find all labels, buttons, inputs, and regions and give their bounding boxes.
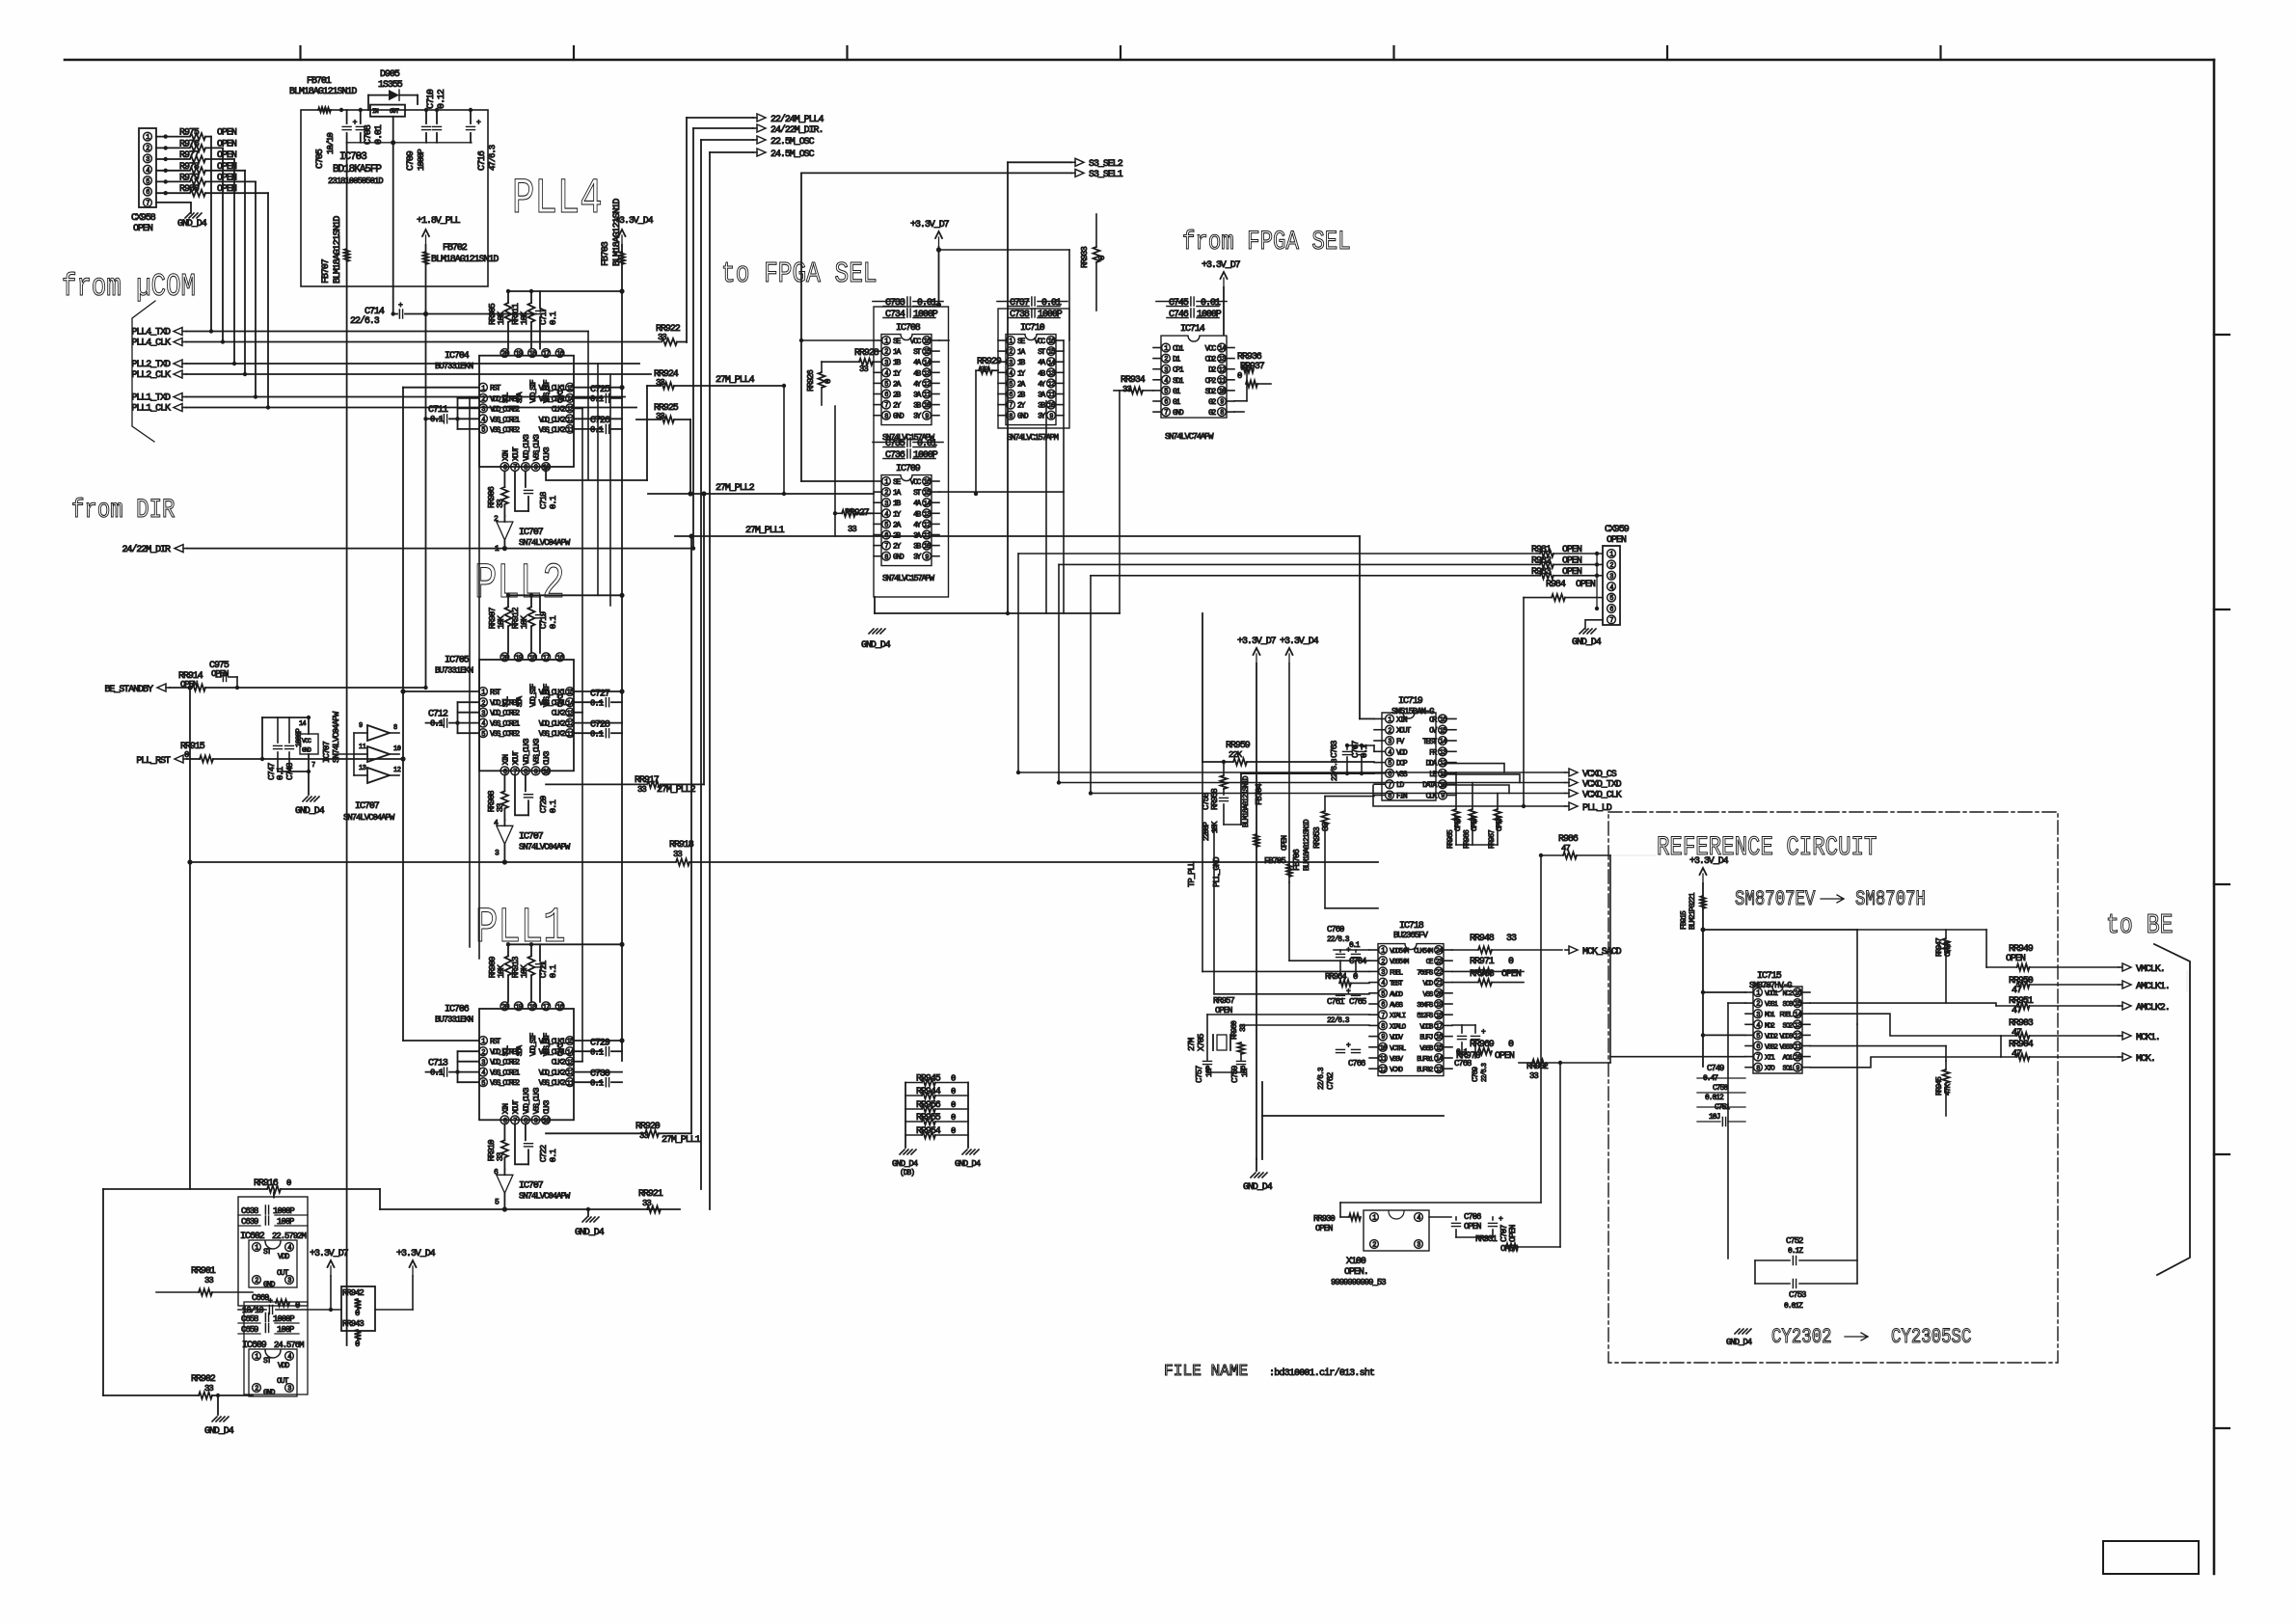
svg-text:4: 4	[1388, 749, 1391, 757]
wire	[1377, 862, 1379, 908]
svg-text:XOUT: XOUT	[512, 447, 521, 461]
wire	[1703, 929, 1857, 931]
svg-text:13: 13	[924, 370, 931, 378]
inverter IC707	[503, 820, 505, 826]
svg-text:13: 13	[1440, 749, 1446, 757]
svg-text:RR928: RR928	[854, 348, 879, 359]
svg-text:33: 33	[637, 785, 646, 795]
svg-text:2: 2	[884, 490, 888, 498]
svg-text:OPEN.: OPEN.	[1344, 1267, 1368, 1278]
wire	[1339, 1203, 1341, 1217]
svg-text:FB707: FB707	[321, 258, 332, 284]
svg-text:+1.8V_PLL: +1.8V_PLL	[417, 216, 461, 227]
svg-text:VSS_CLK1: VSS_CLK1	[539, 395, 566, 404]
svg-text:AMCLK1.: AMCLK1.	[2136, 982, 2170, 992]
svg-text:4: 4	[287, 1245, 291, 1253]
chip IC707 power pins	[300, 734, 318, 754]
wire	[132, 301, 155, 442]
wire	[1360, 717, 1374, 719]
svg-text:2: 2	[481, 700, 485, 708]
wire	[65, 59, 2214, 62]
svg-text:2: 2	[1756, 1001, 1760, 1009]
wire	[2186, 971, 2188, 993]
svg-text:to FPGA SEL: to FPGA SEL	[721, 258, 878, 291]
svg-text:VSS_CORE2: VSS_CORE2	[490, 426, 520, 435]
svg-text:10/10: 10/10	[326, 133, 336, 154]
svg-text:0: 0	[286, 1178, 291, 1188]
resistor R980	[156, 192, 189, 194]
svg-text:from µCOM: from µCOM	[62, 268, 196, 305]
svg-text:5: 5	[884, 381, 888, 389]
svg-text:C768: C768	[1454, 1059, 1472, 1069]
svg-text:13: 13	[359, 765, 366, 772]
wire	[503, 1194, 505, 1209]
svg-text:VSS3: VSS3	[1779, 1044, 1793, 1052]
svg-text:9: 9	[534, 465, 538, 473]
power block outline	[301, 110, 488, 286]
power +3.3V_D4	[1702, 874, 1704, 883]
wire	[2000, 1036, 2002, 1057]
svg-text:10: 10	[543, 1118, 550, 1125]
wire	[457, 398, 459, 429]
svg-text:1000P: 1000P	[913, 310, 938, 320]
wire	[347, 142, 472, 144]
svg-text:3: 3	[884, 360, 888, 367]
svg-text:SN74LVC04APW: SN74LVC04APW	[343, 813, 395, 823]
svg-text:7: 7	[1609, 617, 1613, 625]
svg-text:4: 4	[481, 720, 485, 728]
ground	[869, 629, 874, 634]
svg-text:BLM18AG121SN1D: BLM18AG121SN1D	[1303, 819, 1311, 871]
wire	[874, 307, 949, 597]
svg-text:8: 8	[1381, 1023, 1385, 1031]
svg-text:14: 14	[1440, 739, 1446, 746]
svg-text:2: 2	[1009, 349, 1013, 357]
svg-text:3: 3	[884, 501, 888, 508]
node S3_SEL1	[1075, 169, 1084, 176]
svg-text:10K: 10K	[1211, 821, 1220, 833]
power +3.3V_D7	[1223, 278, 1225, 287]
svg-text:+3.3V_D7: +3.3V_D7	[310, 1249, 349, 1259]
svg-text:8: 8	[393, 724, 397, 732]
svg-text:0.1Z: 0.1Z	[1788, 1247, 1803, 1256]
svg-text:XTALI: XTALI	[1390, 1013, 1406, 1020]
wire	[1497, 844, 1499, 846]
wire	[392, 117, 394, 143]
power +3.3V_D4	[1288, 654, 1290, 663]
svg-text:11: 11	[1795, 1043, 1801, 1051]
svg-text:RST: RST	[490, 1038, 501, 1046]
svg-text:PLL1: PLL1	[475, 900, 566, 957]
svg-text:+3.3V_D7: +3.3V_D7	[1237, 636, 1277, 647]
svg-text:1: 1	[1388, 717, 1391, 724]
svg-text:0.1: 0.1	[1349, 941, 1361, 950]
svg-text:8: 8	[884, 554, 888, 561]
svg-text:BU7331EKN: BU7331EKN	[435, 1015, 473, 1024]
svg-text:11: 11	[567, 731, 574, 739]
svg-text:CLK54M: CLK54M	[1414, 948, 1434, 956]
wire	[1610, 1056, 1745, 1058]
svg-text:BD18KA5FP: BD18KA5FP	[333, 164, 382, 176]
svg-text:512FS: 512FS	[1417, 1013, 1434, 1020]
svg-text:GND_D4: GND_D4	[1726, 1338, 1752, 1347]
chip IC708 SN74LVC157APW	[881, 335, 932, 425]
svg-text:BUF01: BUF01	[1417, 1056, 1434, 1064]
svg-text:0.1: 0.1	[590, 425, 604, 435]
svg-text:1: 1	[255, 1245, 258, 1253]
svg-text:3: 3	[1381, 969, 1385, 977]
svg-text:23: 23	[1436, 959, 1443, 966]
svg-text:RR926: RR926	[806, 370, 816, 392]
chip IC704 BU7331EKN	[479, 356, 574, 467]
wire	[2214, 1427, 2229, 1429]
svg-text:+3.3V_D7: +3.3V_D7	[910, 220, 950, 230]
power +3.3V_D4	[412, 1266, 414, 1276]
svg-text:9: 9	[1796, 1065, 1799, 1072]
svg-text:VDD2: VDD2	[1765, 1033, 1777, 1041]
wire	[1206, 1015, 1208, 1060]
svg-text:0.012: 0.012	[1705, 1094, 1724, 1102]
svg-text:GND: GND	[263, 1281, 276, 1289]
svg-text:OUT: OUT	[277, 1377, 289, 1386]
svg-text:RR933: RR933	[1080, 247, 1090, 268]
svg-text:4: 4	[481, 417, 485, 424]
svg-text:3: 3	[287, 1278, 291, 1286]
svg-text:3: 3	[287, 1386, 291, 1394]
node 22.5M_OSC	[757, 136, 766, 144]
svg-text:VDD_CORE1: VDD_CORE1	[490, 1048, 520, 1057]
svg-text:13: 13	[567, 710, 574, 717]
svg-text:CLK2: CLK2	[552, 1059, 566, 1068]
svg-text:1000P: 1000P	[1197, 310, 1222, 320]
svg-text:7: 7	[311, 762, 315, 770]
wire	[508, 943, 622, 945]
wire	[217, 1395, 219, 1416]
svg-text:16: 16	[556, 1004, 563, 1012]
node VCXO_CLK	[1569, 790, 1578, 798]
svg-text:VCTRL: VCTRL	[1390, 1045, 1407, 1053]
svg-text:MCK.: MCK.	[2136, 1054, 2155, 1065]
connector CX958	[139, 128, 156, 207]
wire	[939, 339, 949, 341]
svg-text:0: 0	[1353, 972, 1358, 982]
ground	[212, 1417, 217, 1421]
node PLL_LD	[1569, 802, 1578, 810]
power +3.3V_D7	[330, 1266, 332, 1276]
svg-text:6: 6	[146, 189, 149, 197]
svg-text:XIN: XIN	[501, 449, 510, 461]
svg-text:1: 1	[481, 690, 485, 697]
svg-text:2: 2	[481, 1049, 485, 1057]
svg-text:1: 1	[495, 545, 500, 554]
svg-text:22.5M_OSC: 22.5M_OSC	[770, 137, 815, 148]
svg-text:1: 1	[1381, 948, 1385, 956]
wire	[609, 374, 611, 606]
svg-text:RR942: RR942	[342, 1288, 364, 1298]
svg-text:OPEN: OPEN	[1501, 969, 1522, 980]
svg-text:RR943: RR943	[342, 1319, 364, 1329]
svg-text:2: 2	[1381, 959, 1385, 966]
svg-text:GND: GND	[893, 554, 905, 562]
svg-text:15: 15	[1436, 1044, 1443, 1052]
svg-text:GND_D4: GND_D4	[892, 1159, 918, 1169]
svg-text:VCXO_CS: VCXO_CS	[1582, 770, 1617, 780]
svg-text:3: 3	[481, 406, 485, 414]
svg-text:X705: X705	[1197, 1034, 1206, 1051]
node AMCLK2.	[2122, 1002, 2131, 1010]
svg-text:to BE: to BE	[2106, 909, 2174, 941]
wire	[469, 397, 471, 948]
svg-text:7: 7	[884, 402, 888, 410]
chip IC714 SN74LVC74APW	[1161, 336, 1227, 418]
svg-text:5: 5	[1381, 990, 1385, 998]
svg-text:4: 4	[1756, 1022, 1760, 1030]
wire	[2154, 944, 2190, 1275]
svg-text:9999999999_53: 9999999999_53	[1331, 1278, 1386, 1287]
svg-text:0.01Z: 0.01Z	[1784, 1302, 1803, 1311]
svg-text:VDD_CORE1: VDD_CORE1	[490, 699, 520, 708]
svg-text:PLL4_TXD: PLL4_TXD	[131, 328, 171, 338]
svg-text:1000P: 1000P	[1038, 310, 1063, 320]
svg-text:6: 6	[1388, 771, 1391, 779]
wire	[261, 717, 263, 759]
wire	[1810, 1003, 1996, 1006]
svg-text:768FS: 768FS	[1417, 969, 1434, 977]
wire	[1202, 613, 1203, 762]
svg-text:3: 3	[481, 1059, 485, 1067]
svg-text:5: 5	[1609, 595, 1613, 603]
svg-text:14: 14	[924, 501, 931, 508]
svg-text:SD2: SD2	[1205, 388, 1217, 396]
svg-text:12: 12	[924, 522, 931, 529]
wire	[392, 143, 394, 314]
svg-text:20: 20	[501, 655, 508, 663]
svg-text:VDD_CLK1: VDD_CLK1	[539, 1038, 566, 1046]
svg-text:C716: C716	[477, 150, 488, 171]
svg-text:C734: C734	[885, 310, 905, 320]
chip IC710	[998, 309, 1069, 428]
wire	[905, 1083, 906, 1149]
svg-text:OPEN: OPEN	[217, 128, 237, 139]
svg-text:22/6.3: 22/6.3	[350, 315, 380, 327]
svg-text:MCK1.: MCK1.	[2136, 1033, 2160, 1043]
svg-text:VDD_CLK2: VDD_CLK2	[539, 720, 566, 729]
svg-text:2: 2	[884, 349, 888, 357]
svg-text:1: 1	[1756, 990, 1760, 998]
svg-text:6: 6	[884, 392, 888, 399]
svg-text:C718: C718	[539, 492, 549, 509]
svg-text:C753: C753	[1789, 1290, 1806, 1300]
svg-text:7: 7	[1381, 1013, 1385, 1020]
svg-text:BLM21PG221: BLM21PG221	[1688, 892, 1697, 930]
svg-text:C749: C749	[1707, 1064, 1724, 1073]
svg-text:GND_D4: GND_D4	[1243, 1182, 1273, 1193]
svg-text:0.12: 0.12	[437, 89, 447, 109]
svg-text:VDD_CLK2: VDD_CLK2	[539, 416, 566, 424]
svg-text:10: 10	[1795, 1054, 1801, 1062]
svg-text:BUF02: BUF02	[1417, 1067, 1433, 1074]
wire	[1443, 764, 1504, 772]
svg-text:5: 5	[884, 522, 888, 529]
svg-text:27M_PLL2: 27M_PLL2	[716, 483, 755, 494]
svg-text:24: 24	[1436, 948, 1443, 956]
svg-text:FB706: FB706	[1292, 850, 1302, 871]
wire	[1241, 772, 1374, 774]
svg-text:33: 33	[204, 1276, 213, 1286]
svg-text:TEST: TEST	[1422, 738, 1437, 746]
svg-text:3: 3	[481, 710, 485, 717]
svg-text:VDD_CLK3: VDD_CLK3	[523, 1087, 531, 1114]
svg-text:5: 5	[481, 731, 485, 739]
svg-text:C750: C750	[1713, 1084, 1728, 1093]
svg-text:FB704: FB704	[1255, 784, 1264, 805]
svg-text:9: 9	[534, 769, 538, 776]
svg-text:VSS_CLK2: VSS_CLK2	[539, 426, 566, 435]
node S3_SEL2	[1075, 158, 1084, 166]
svg-text:15: 15	[567, 1039, 574, 1046]
wire	[1939, 46, 1941, 60]
wire	[597, 364, 599, 595]
svg-text:10: 10	[924, 543, 931, 551]
svg-text:27M_PLL1: 27M_PLL1	[745, 526, 785, 536]
svg-text:0.01: 0.01	[917, 298, 937, 309]
svg-text:VCC: VCC	[910, 478, 922, 487]
svg-text:FB703: FB703	[601, 241, 611, 266]
node 24.5M_OSC	[757, 149, 766, 156]
svg-text:C759: C759	[1230, 1066, 1240, 1083]
chip IC706 BU7331EKN	[479, 1009, 574, 1120]
svg-text:20: 20	[501, 1004, 508, 1012]
svg-text:4: 4	[1164, 377, 1168, 385]
wire	[262, 717, 309, 718]
wire	[1540, 855, 1542, 1203]
svg-text:22: 22	[1436, 969, 1443, 977]
svg-text:VSS2: VSS2	[1765, 1044, 1777, 1052]
svg-text:17: 17	[543, 1004, 550, 1012]
svg-text:1000P: 1000P	[295, 728, 304, 747]
svg-text:IC714: IC714	[1180, 324, 1205, 335]
wire	[874, 597, 876, 613]
svg-text:IC707: IC707	[519, 831, 544, 842]
svg-text:8: 8	[1388, 793, 1391, 800]
svg-text:GND_D4: GND_D4	[575, 1228, 605, 1238]
svg-text:VDD1: VDD1	[1765, 990, 1778, 998]
svg-text:SN74LVC157APW: SN74LVC157APW	[882, 574, 935, 583]
inverter IC707	[503, 1169, 505, 1175]
resistor R978	[156, 170, 189, 172]
svg-text:IC719: IC719	[1398, 696, 1423, 707]
svg-text:CD2: CD2	[1205, 356, 1217, 365]
svg-text:4: 4	[481, 1069, 485, 1077]
svg-text:RR966: RR966	[1463, 829, 1472, 849]
svg-text:GND_D4: GND_D4	[295, 806, 325, 817]
svg-text:VSSB: VSSB	[1419, 1045, 1433, 1053]
wire	[102, 1189, 104, 1395]
svg-text:18: 18	[529, 351, 536, 359]
svg-text:AMCLK2.: AMCLK2.	[2136, 1003, 2170, 1014]
svg-text:0.1: 0.1	[590, 1047, 604, 1057]
svg-text:VSS_CLK3: VSS_CLK3	[533, 738, 542, 765]
chip IC710 SN74LVC157APM	[1006, 335, 1056, 425]
svg-text:9: 9	[359, 722, 363, 730]
node MCK1.	[2122, 1032, 2131, 1040]
svg-text:RR937: RR937	[1240, 362, 1265, 372]
svg-text:RR969: RR969	[1470, 1040, 1495, 1050]
svg-text:7: 7	[884, 543, 888, 551]
svg-text:DATA: DATA	[1422, 781, 1437, 790]
wire	[691, 546, 695, 550]
svg-text:R978: R978	[179, 162, 200, 173]
svg-text:SD1: SD1	[1173, 377, 1184, 386]
wire	[1609, 855, 1611, 1063]
svg-text:C708: C708	[364, 124, 374, 145]
svg-text:CLK3: CLK3	[543, 447, 552, 461]
svg-text:FSEL: FSEL	[1390, 969, 1403, 977]
svg-text:BU2365FV: BU2365FV	[1393, 931, 1428, 940]
svg-text:8: 8	[1756, 1065, 1760, 1072]
svg-text:18: 18	[529, 655, 536, 663]
wire	[233, 159, 235, 364]
svg-text:12: 12	[1219, 366, 1226, 374]
svg-text:IC706: IC706	[445, 1004, 470, 1015]
svg-text:VDD54M: VDD54M	[1390, 948, 1410, 956]
svg-text:RR968: RR968	[1470, 969, 1495, 980]
svg-text:IC708: IC708	[896, 323, 921, 334]
svg-text:RST: RST	[490, 689, 501, 697]
svg-text:9: 9	[925, 413, 929, 420]
ground	[582, 1217, 587, 1222]
wire	[508, 594, 622, 596]
svg-text:22K: 22K	[1229, 750, 1243, 760]
svg-text:11: 11	[359, 744, 366, 751]
svg-text:0.01: 0.01	[1041, 298, 1062, 309]
wire	[1702, 929, 1704, 931]
svg-text:4: 4	[884, 511, 888, 519]
svg-text:2: 2	[494, 515, 499, 524]
svg-text:VCC: VCC	[1035, 338, 1046, 346]
svg-text:FB705: FB705	[1264, 856, 1285, 866]
svg-text:15: 15	[567, 385, 574, 392]
svg-text:24.5M_OSC: 24.5M_OSC	[770, 149, 815, 160]
svg-text:2: 2	[1372, 1242, 1376, 1250]
svg-text:4: 4	[146, 167, 149, 175]
wire	[503, 541, 505, 549]
svg-text:2: 2	[255, 1386, 258, 1394]
svg-text:20: 20	[1436, 990, 1443, 998]
svg-text:7: 7	[1388, 782, 1391, 790]
svg-text:27M: 27M	[1187, 1038, 1197, 1051]
svg-text:VDD_CORE1: VDD_CORE1	[490, 395, 520, 404]
svg-text:C745: C745	[1169, 298, 1189, 309]
svg-text:1: 1	[884, 479, 888, 487]
svg-text:4: 4	[1609, 584, 1613, 592]
svg-text:BU7331EKN: BU7331EKN	[435, 665, 473, 675]
svg-text:5: 5	[481, 1080, 485, 1088]
wire	[1202, 762, 1203, 971]
svg-text:9: 9	[1381, 1034, 1385, 1042]
wire	[675, 535, 1360, 537]
svg-text:3: 3	[1009, 360, 1013, 367]
svg-text:RR948: RR948	[1470, 934, 1495, 944]
svg-text:11: 11	[1440, 771, 1446, 779]
wire	[457, 1051, 459, 1082]
svg-text:R977: R977	[179, 150, 200, 161]
svg-text:4: 4	[1381, 980, 1385, 988]
svg-text:14: 14	[924, 360, 931, 367]
svg-text:C769: C769	[1472, 1067, 1480, 1082]
svg-text:C720: C720	[539, 796, 549, 813]
svg-text:16: 16	[1795, 990, 1801, 998]
